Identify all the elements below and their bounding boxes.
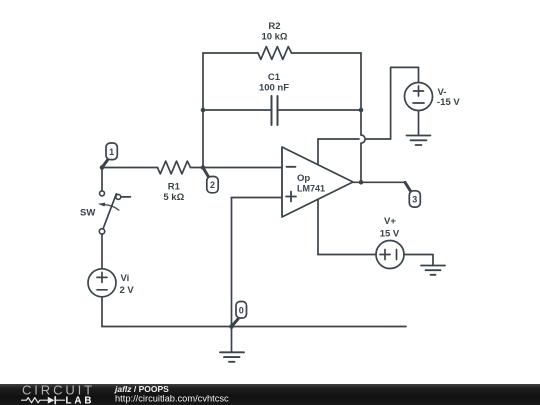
switch SW bottom terminal [99,229,104,234]
wire C1 right lead [278,109,362,111]
svg-text:LM741: LM741 [297,183,326,194]
label C1 value 100 nF [259,72,289,94]
label V+ value 15 V [380,216,400,240]
op-amp U1 LM741 [282,147,353,217]
svg-text:jaflz / POOPS: jaflz / POOPS [114,384,169,394]
voltage source V- [405,83,433,111]
label R2 value 10 kOhm [261,21,287,43]
label R1 value 5 kOhm [163,182,184,204]
wire noninverting input riser [231,198,233,327]
op-amp negative supply pin [317,139,319,165]
ground at node 0 [220,327,244,362]
voltage source Vi [88,269,116,297]
footer bar [0,384,540,405]
svg-text:2 V: 2 V [120,285,135,296]
svg-text:5 kΩ: 5 kΩ [163,192,184,203]
svg-text:Vi: Vi [121,273,130,284]
wire top horizontal left lead of R2 [203,52,258,54]
label Vi value 2 V [120,273,135,296]
svg-text:R2: R2 [268,21,280,32]
ground right of V+ [421,266,445,275]
junction dot node 0 [229,324,234,329]
label V- value -15 V [437,87,460,108]
junction dot node 1 [100,165,105,170]
wire node1 to switch top [101,168,103,191]
capacitor C1 [272,96,278,125]
junction dot output [359,180,364,185]
svg-text:0: 0 [239,306,244,316]
voltage source V+ [376,241,404,269]
svg-text:http://circuitlab.com/cvhtcsc: http://circuitlab.com/cvhtcsc [115,394,229,404]
wire feedback vertical lower (hop to output) [360,143,362,182]
op-amp positive supply pin [317,199,319,254]
node 3 flag [405,182,420,207]
svg-text:C1: C1 [268,72,281,83]
label SW [80,207,95,218]
svg-text:R1: R1 [168,182,181,193]
switch SW top terminal [100,191,105,196]
wire op-amp output [353,181,406,183]
svg-text:10 kΩ: 10 kΩ [261,32,287,43]
svg-text:3: 3 [412,195,417,205]
wire V+ to ground [404,255,433,266]
wire positive supply horizontal [318,254,376,256]
svg-text:1: 1 [109,147,114,157]
junction dot C1 left [201,108,206,113]
wire noninverting input horizontal [232,197,283,199]
svg-text:100 nF: 100 nF [259,83,289,94]
switch SW blade [103,194,116,229]
wire negative supply horizontal [318,138,391,140]
footer logo mini circuit and LAB [22,395,95,405]
ground below V- [407,136,431,146]
wire top horizontal right lead of R2 [292,52,362,54]
switch SW throw stub [121,196,130,198]
footer logo CIRCUIT [22,382,95,397]
wire C1 left lead [203,109,272,111]
footer title jaflz / POOPS [114,384,169,394]
wire R1 left lead [102,167,158,169]
node 0 flag [232,302,247,327]
svg-text:15 V: 15 V [380,229,400,240]
resistor R1 [158,161,191,174]
wire top left vertical (node 2 rail) [202,53,204,168]
footer url [115,394,229,404]
wire switch bottom to Vi [101,234,103,269]
svg-text:SW: SW [80,207,95,218]
wire bottom ground rail [102,326,406,328]
junction dot C1 right [359,108,364,113]
svg-text:-15 V: -15 V [437,97,460,108]
wire Vi bottom to ground rail [101,297,103,327]
svg-text:LAB: LAB [66,395,95,405]
wire hop over supply wire [361,135,365,143]
svg-text:V+: V+ [384,216,396,227]
junction dot node 2 [201,165,206,170]
node 2 flag [203,168,218,193]
node 1 flag [102,143,117,168]
resistor R2 [258,47,292,60]
wire feedback vertical upper (R2/C1 to hop) [360,53,362,135]
svg-text:2: 2 [210,180,215,190]
switch SW throw terminal [116,194,121,199]
switch SW motion arrow [98,203,119,211]
wire V- link [391,67,419,139]
wire R1 right lead to op-amp inverting input [191,167,283,169]
wire V- to ground [418,111,420,136]
